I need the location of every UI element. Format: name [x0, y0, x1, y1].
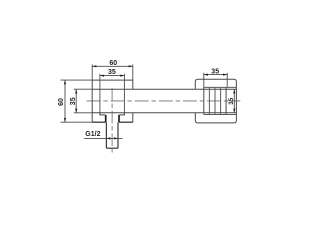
thread shoulder left (thick): [105, 115, 107, 122]
dimension 60 left: [61, 80, 93, 122]
tee block bottom edge right segment: [119, 121, 133, 123]
wire: vertical centerline: [111, 88, 113, 152]
svg-text:35: 35: [70, 97, 77, 105]
thread line 1: [208, 87, 210, 114]
left tee block outline (right edge interrupted by arm): [92, 80, 133, 122]
arm top edge: [92, 88, 236, 90]
wall thread section left edge: [203, 87, 205, 114]
right flange block (left edge interrupted by arm): [195, 79, 236, 123]
dimension 35 left: [74, 89, 93, 113]
G1/2 leader: [84, 137, 122, 139]
tee block bottom edge left segment: [92, 121, 105, 123]
svg-text:60: 60: [109, 60, 117, 67]
flange inner bottom line: [204, 114, 237, 116]
dimension 35 top: [100, 74, 125, 115]
svg-text:60: 60: [58, 98, 65, 106]
dimension 35 right-top: [204, 73, 227, 88]
svg-text:35: 35: [108, 69, 116, 76]
down pipe left wall: [105, 122, 107, 148]
arm bottom edge: [92, 112, 236, 114]
step under tee block: [100, 113, 105, 115]
down pipe end cap: [106, 147, 118, 149]
dimension 60 top: [92, 65, 133, 81]
thread shoulder right (thick): [118, 115, 120, 122]
down pipe right wall: [117, 122, 119, 148]
wire: horizontal centerline: [87, 100, 241, 102]
svg-text:G1/2: G1/2: [85, 131, 100, 138]
step under tee block right: [119, 113, 124, 115]
svg-text:35: 35: [228, 97, 235, 105]
flange inner top line: [204, 86, 237, 88]
wall thread section right edge: [225, 87, 227, 114]
thread line 3: [220, 87, 222, 114]
svg-text:35: 35: [211, 68, 219, 75]
thread line 2: [214, 87, 216, 114]
dimension 35 right-vertical: [233, 89, 235, 113]
